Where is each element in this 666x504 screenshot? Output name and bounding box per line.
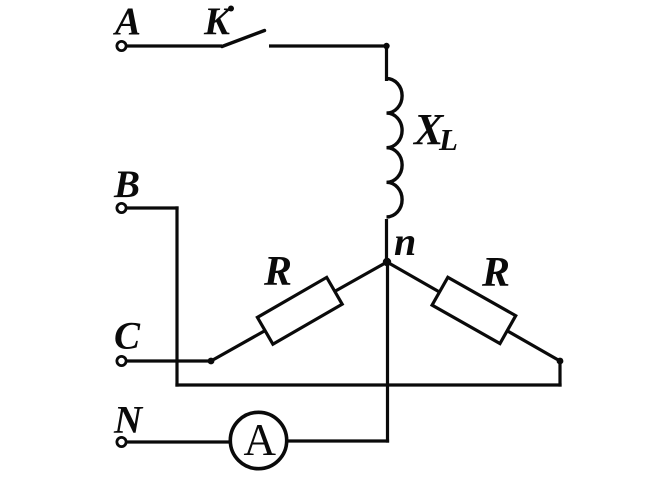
junction dot C wire bbox=[208, 358, 215, 365]
dot above K bbox=[228, 6, 234, 12]
wire bottom horizontal bbox=[175, 383, 561, 386]
svg-text:A: A bbox=[112, 0, 141, 43]
node n junction dot bbox=[383, 258, 391, 266]
ammeter A1 bbox=[230, 412, 286, 468]
svg-text:n: n bbox=[394, 219, 416, 264]
wire vertical up to node n bbox=[386, 262, 389, 443]
wire ammeter to vertical bbox=[287, 439, 389, 442]
wire B right bbox=[127, 206, 179, 209]
wire N to ammeter bbox=[127, 440, 230, 443]
wire right corner down bbox=[558, 361, 561, 387]
wire A to switch bbox=[127, 44, 223, 47]
resistor R right bbox=[432, 277, 516, 343]
terminal B bbox=[117, 203, 126, 212]
svg-text:B: B bbox=[113, 163, 140, 206]
svg-text:R: R bbox=[263, 249, 292, 295]
junction dot right corner bbox=[557, 358, 564, 365]
terminal C bbox=[117, 356, 126, 365]
terminal A bbox=[117, 41, 126, 50]
inductor XL coil bbox=[387, 79, 403, 217]
svg-text:R: R bbox=[481, 250, 510, 296]
svg-text:A: A bbox=[244, 415, 277, 465]
junction dot top corner bbox=[383, 43, 389, 49]
wire C right bbox=[127, 359, 213, 362]
svg-text:K: K bbox=[203, 0, 233, 43]
wire B down bbox=[175, 206, 178, 386]
switch K blade bbox=[222, 31, 265, 47]
svg-text:L: L bbox=[438, 122, 458, 157]
wire switch to top corner bbox=[269, 44, 388, 47]
wire corner down to inductor bbox=[385, 45, 388, 82]
terminal N bbox=[117, 437, 126, 446]
svg-text:N: N bbox=[113, 399, 144, 442]
resistor R left bbox=[257, 277, 342, 344]
svg-text:C: C bbox=[114, 315, 141, 358]
wire right diagonal (n to right corner) bbox=[387, 262, 560, 361]
wire left diagonal (n to C junction) bbox=[211, 262, 387, 361]
wire inductor to node n bbox=[385, 219, 388, 263]
